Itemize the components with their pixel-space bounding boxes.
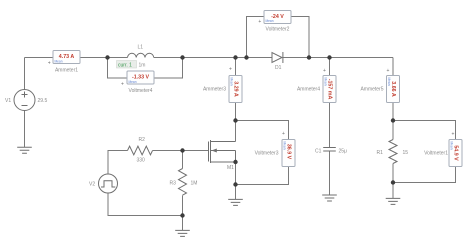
svg-text:Voltmeter4: Voltmeter4 xyxy=(129,88,153,94)
svg-text:Mean: Mean xyxy=(387,78,391,86)
svg-text:Voltmeter1: Voltmeter1 xyxy=(424,151,448,157)
svg-text:Mean: Mean xyxy=(266,19,274,23)
resistor R1 xyxy=(389,140,397,164)
svg-text:curr. 1: curr. 1 xyxy=(118,62,132,68)
wire Voltmeter1 bottom to node K xyxy=(393,167,456,183)
junction node C xyxy=(233,55,237,59)
wire Voltmeter2 left lead xyxy=(247,17,265,58)
svg-text:M1: M1 xyxy=(227,165,234,171)
voltmeter Voltmeter1 xyxy=(449,140,462,167)
ground below R1 xyxy=(386,198,401,204)
svg-text:+: + xyxy=(387,68,390,74)
wire L1 to node B xyxy=(154,57,183,59)
probe label curr. 1 xyxy=(117,61,137,69)
wire node E to node F xyxy=(309,57,330,59)
resistor R2 xyxy=(128,146,153,155)
junction node L xyxy=(180,148,184,152)
ammeter Ammeter4 xyxy=(323,76,336,103)
diode D1 xyxy=(272,52,283,63)
wire node C down to Ammeter3 xyxy=(235,58,237,76)
wire Voltmeter4 right lead xyxy=(154,58,183,79)
wire Ammeter3 to node G xyxy=(235,103,237,121)
svg-text:R3: R3 xyxy=(170,181,177,187)
ammeter Ammeter5 xyxy=(387,76,400,103)
svg-text:+: + xyxy=(229,67,232,73)
junction node M xyxy=(180,213,184,217)
svg-text:Mean: Mean xyxy=(129,80,137,84)
wire M1 source node to node H xyxy=(235,162,237,185)
wire node F to top-right corner xyxy=(330,57,394,59)
wire node B to node C xyxy=(183,57,236,59)
wire V2 top to R2 xyxy=(108,151,128,175)
svg-text:+: + xyxy=(282,131,285,137)
wire node G to Voltmeter3 top xyxy=(236,121,289,140)
svg-text:15: 15 xyxy=(403,150,409,156)
svg-text:Mean: Mean xyxy=(324,78,328,86)
wire Voltmeter4 left lead xyxy=(108,58,128,79)
svg-text:+: + xyxy=(121,82,124,88)
svg-text:+: + xyxy=(258,19,261,25)
wire node L to M1 gate xyxy=(183,150,209,152)
svg-text:D1: D1 xyxy=(275,65,282,71)
wire V1 top to main rail xyxy=(24,58,26,90)
junction node G xyxy=(233,118,237,122)
svg-text:330: 330 xyxy=(137,158,146,164)
junction node F xyxy=(327,55,331,59)
capacitor C1 xyxy=(323,148,336,152)
wire Ammeter4 to C1 xyxy=(329,103,331,148)
voltage source V1 xyxy=(14,90,35,111)
ground below V1 xyxy=(17,147,32,153)
junction node E xyxy=(307,55,311,59)
inductor L1 xyxy=(128,53,154,57)
ground below R3 xyxy=(175,230,190,236)
voltmeter Voltmeter4 xyxy=(127,71,154,84)
junction node A xyxy=(105,55,109,59)
wire Ammeter5 to node J xyxy=(392,103,394,121)
svg-text:V2: V2 xyxy=(89,182,95,188)
wire node M to ground stem xyxy=(182,216,184,231)
junction node K xyxy=(391,180,395,184)
svg-text:Ammeter1: Ammeter1 xyxy=(55,68,78,74)
wire D1 cathode to node E xyxy=(283,57,309,59)
wire main rail V1 to Ammeter1 xyxy=(25,57,54,59)
svg-text:Ammeter5: Ammeter5 xyxy=(360,87,383,93)
svg-text:C1: C1 xyxy=(315,149,322,155)
wire R1 to node K xyxy=(392,164,394,183)
junction node J xyxy=(391,118,395,122)
svg-text:Mean: Mean xyxy=(230,78,234,86)
pulse source V2 xyxy=(99,174,118,193)
junction node D xyxy=(244,55,248,59)
svg-text:R1: R1 xyxy=(377,150,384,156)
wire corner down to Ammeter5 xyxy=(392,58,394,76)
wire node C to node D xyxy=(236,57,247,59)
svg-text:29.5: 29.5 xyxy=(38,98,48,104)
wire node F down to Ammeter4 xyxy=(329,58,331,76)
wire node A to L1 xyxy=(108,57,128,59)
wire V1 bottom to ground xyxy=(24,111,26,148)
ammeter Ammeter3 xyxy=(229,76,242,103)
svg-text:+: + xyxy=(323,68,326,74)
ground below C1 xyxy=(322,195,337,201)
svg-text:Ammeter4: Ammeter4 xyxy=(297,87,320,93)
svg-text:1m: 1m xyxy=(139,63,146,69)
svg-text:V1: V1 xyxy=(5,98,11,104)
wire R3 bottom to node M xyxy=(182,196,184,216)
wire node J to Voltmeter1 top xyxy=(393,121,456,140)
voltmeter Voltmeter3 xyxy=(282,140,295,167)
svg-text:Ammeter3: Ammeter3 xyxy=(203,87,226,93)
junction node H xyxy=(233,182,237,186)
transistor M1 xyxy=(209,140,236,163)
resistor R3 xyxy=(179,169,187,196)
svg-text:1M: 1M xyxy=(191,181,198,187)
svg-text:25μ: 25μ xyxy=(339,149,348,155)
voltmeter Voltmeter2 xyxy=(264,11,291,24)
svg-text:Voltmeter3: Voltmeter3 xyxy=(255,151,279,157)
wire Ammeter1 to node A xyxy=(80,57,108,59)
wire node K to ground stem xyxy=(392,183,394,199)
junction node B xyxy=(180,55,184,59)
junction M1 source node xyxy=(233,160,237,164)
ammeter Ammeter1 xyxy=(53,51,80,64)
wire node G to M1 drain xyxy=(235,121,237,142)
svg-text:+: + xyxy=(48,60,51,66)
ground below M1 xyxy=(228,199,243,205)
svg-text:Voltmeter2: Voltmeter2 xyxy=(266,27,290,33)
wire Voltmeter2 right lead xyxy=(291,17,309,58)
wire node J to R1 xyxy=(392,121,394,140)
svg-text:+: + xyxy=(452,132,455,138)
wire V2 bottom to node M xyxy=(108,193,183,216)
wire node H to Voltmeter3 bottom xyxy=(236,167,289,185)
svg-text:R2: R2 xyxy=(139,137,146,143)
svg-text:L1: L1 xyxy=(138,45,144,51)
svg-text:Mean: Mean xyxy=(450,142,454,150)
wire node H to ground stem xyxy=(235,185,237,200)
wire C1 to ground xyxy=(329,151,331,195)
svg-text:Mean: Mean xyxy=(283,142,287,150)
wire R2 to node L xyxy=(153,150,183,152)
wire node L to R3 top xyxy=(182,151,184,169)
wire node D to D1 anode xyxy=(247,57,273,59)
svg-text:Mean: Mean xyxy=(55,60,63,64)
